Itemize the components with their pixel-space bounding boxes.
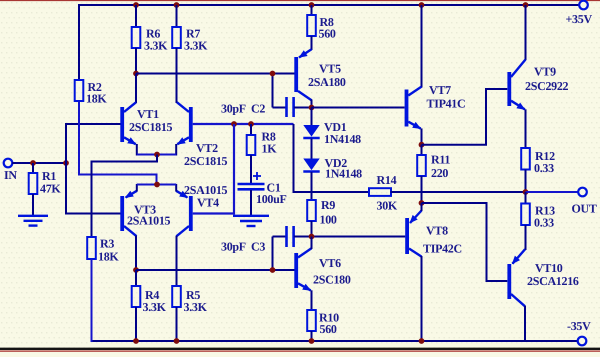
wire R5 bottom xyxy=(176,307,178,342)
svg-text:30pF: 30pF xyxy=(221,102,246,116)
svg-text:1N4148: 1N4148 xyxy=(324,132,361,146)
wire VT6 collector stub xyxy=(311,237,313,250)
resistor R13 xyxy=(521,204,555,230)
wire IN to junction xyxy=(12,162,66,164)
transistor VT10 xyxy=(507,249,579,306)
output terminal OUT xyxy=(572,188,597,216)
wire VT7 base xyxy=(312,107,405,109)
svg-text:R11: R11 xyxy=(431,153,450,167)
transistor VT9 xyxy=(507,60,568,110)
wire R9 bottom xyxy=(311,221,313,238)
transistor VT7 xyxy=(405,83,466,129)
svg-text:VT9: VT9 xyxy=(534,65,556,79)
wire R4 top stub xyxy=(135,270,137,287)
node rail R7 xyxy=(174,2,180,8)
wire R2 to tail2 xyxy=(79,101,157,185)
node R8 feedback xyxy=(248,121,254,127)
wire OUT xyxy=(526,191,579,193)
node rail VT7 xyxy=(419,2,425,8)
transistor VT5 xyxy=(294,49,346,100)
node rail R8 xyxy=(309,2,315,8)
wire VT2-VT4 base tie xyxy=(193,124,234,214)
wire feedback right xyxy=(391,191,527,193)
svg-text:IN: IN xyxy=(4,168,17,182)
svg-text:0.33: 0.33 xyxy=(534,161,554,175)
wire input vertical xyxy=(65,123,67,215)
wire driver link bottom xyxy=(422,203,508,281)
node R5 rail xyxy=(174,338,180,344)
wire VT7 emitter stub xyxy=(421,128,423,145)
transistor VT1 xyxy=(120,102,172,144)
svg-text:3.3K: 3.3K xyxy=(144,39,168,53)
wire driver link top xyxy=(422,89,508,145)
wire C1 bottom stub xyxy=(250,190,252,216)
wire VT6 emitter stub xyxy=(311,290,313,311)
svg-text:3.3K: 3.3K xyxy=(143,300,167,314)
ground below C1 xyxy=(233,216,269,226)
svg-text:TIP41C: TIP41C xyxy=(427,97,466,111)
wire R10 bottom stub xyxy=(311,331,313,342)
wire R2 top xyxy=(78,4,80,81)
resistor R10 xyxy=(307,310,339,336)
capacitor C1 xyxy=(238,172,287,206)
wire R13 top stub xyxy=(525,192,527,204)
wire R12 bottom xyxy=(525,170,527,194)
node input junction R1 xyxy=(30,160,36,166)
wire VT4 collector vertical xyxy=(176,236,178,287)
resistor R2 xyxy=(75,80,108,106)
svg-text:VT6: VT6 xyxy=(319,256,341,270)
capacitor C2 xyxy=(221,97,294,117)
svg-text:3.3K: 3.3K xyxy=(184,300,208,314)
svg-text:C2: C2 xyxy=(251,102,265,116)
wire VT10 collector xyxy=(524,306,526,342)
resistor R1 xyxy=(29,169,62,196)
transistor VT4 xyxy=(176,183,228,236)
wire R11 bottom stub xyxy=(421,176,423,204)
node R4 rail xyxy=(133,338,139,344)
wire C3 left lead xyxy=(273,236,287,238)
power terminal +35V xyxy=(566,1,593,26)
resistor R7 xyxy=(172,27,208,53)
node tail1 xyxy=(154,152,160,158)
wire R8-560 top stub xyxy=(311,5,313,16)
svg-text:18K: 18K xyxy=(98,250,119,264)
svg-text:18K: 18K xyxy=(86,92,107,106)
wire VT9 emitter to R12 xyxy=(525,109,527,149)
wire VD1 top stub xyxy=(311,108,313,127)
node rail R6 xyxy=(133,2,139,8)
resistor R3 xyxy=(87,237,119,264)
wire VT3-VT4 tail xyxy=(137,184,176,186)
transistor VT3 xyxy=(120,191,170,237)
svg-text:+35V: +35V xyxy=(566,12,593,26)
svg-text:30pF: 30pF xyxy=(221,240,246,254)
node OUT xyxy=(523,189,529,195)
wire VT1 collector vertical xyxy=(135,74,137,104)
resistor R11 xyxy=(417,153,450,181)
svg-text:100uF: 100uF xyxy=(256,192,287,206)
node VT6 base junction xyxy=(270,267,276,273)
svg-text:560: 560 xyxy=(320,322,337,336)
svg-text:R9: R9 xyxy=(321,198,335,212)
svg-text:100: 100 xyxy=(320,213,337,227)
svg-text:R14: R14 xyxy=(377,173,397,187)
svg-text:TIP42C: TIP42C xyxy=(423,242,462,256)
power terminal -35V xyxy=(567,319,591,345)
wire R8-560 to VT5 emitter xyxy=(311,36,313,50)
wire R13 to VT10 xyxy=(525,225,527,250)
node VT7 emitter xyxy=(419,142,425,148)
svg-text:47K: 47K xyxy=(40,182,61,196)
svg-text:VT4: VT4 xyxy=(197,196,219,210)
node VT8 emitter xyxy=(419,200,425,206)
wire R4 bottom xyxy=(135,307,137,342)
node tail2 xyxy=(154,182,160,188)
svg-text:220: 220 xyxy=(431,166,448,180)
node VT5 base junction xyxy=(270,71,276,77)
node VT6 collector xyxy=(309,234,315,240)
wire VD1 to VD2 xyxy=(311,139,313,160)
resistor R8 xyxy=(247,130,278,156)
wire VT8 base xyxy=(312,236,406,238)
resistor R12 xyxy=(521,148,555,175)
svg-text:VT7: VT7 xyxy=(429,83,451,97)
wire tail1 to R3 xyxy=(92,155,158,239)
wire +35V top rail xyxy=(79,4,579,6)
wire VT1 base xyxy=(66,123,121,125)
node VT5 collector xyxy=(309,105,315,111)
wire R6 bottom xyxy=(135,48,137,75)
wire VT3 base xyxy=(66,213,121,215)
node IN vertical junction xyxy=(63,160,69,166)
svg-text:2SC1815: 2SC1815 xyxy=(184,154,228,168)
svg-text:OUT: OUT xyxy=(572,202,597,216)
wire R3 bottom xyxy=(91,259,93,342)
wire VT1 emitter stub xyxy=(136,144,138,156)
input terminal IN xyxy=(4,159,18,182)
svg-text:2SCA1216: 2SCA1216 xyxy=(527,274,579,288)
wire R6 top stub xyxy=(135,5,137,28)
wire VT8 collector xyxy=(421,256,423,342)
wire R8 top stub xyxy=(250,124,252,136)
svg-text:2SA180: 2SA180 xyxy=(308,75,346,89)
wire VT3 emitter stub xyxy=(136,184,138,191)
resistor R5 xyxy=(172,286,207,314)
resistor R9 xyxy=(307,198,337,227)
node rail VT9 xyxy=(523,2,529,8)
wire VT9 collector vertical xyxy=(525,5,527,60)
svg-text:30K: 30K xyxy=(377,199,398,213)
svg-text:R3: R3 xyxy=(100,237,114,251)
wire VT3 collector vertical xyxy=(135,236,137,271)
wire C2 left lead xyxy=(273,107,287,109)
node R10 rail xyxy=(309,338,315,344)
wire VT2 base run xyxy=(193,123,294,125)
svg-text:0.33: 0.33 xyxy=(534,216,554,230)
svg-text:VT2: VT2 xyxy=(196,141,218,155)
wire VT5 collector stub xyxy=(311,100,313,109)
wire C3 branch vertical xyxy=(272,237,274,272)
wire VT6 base run xyxy=(136,269,295,271)
svg-text:VT10: VT10 xyxy=(535,261,563,275)
capacitor C3 xyxy=(221,226,294,254)
wire VD2 to R9 xyxy=(311,172,313,201)
transistor VT2 xyxy=(177,102,228,168)
svg-text:2SC180: 2SC180 xyxy=(313,273,351,287)
svg-text:-35V: -35V xyxy=(567,319,591,333)
wire R8 to C1 xyxy=(250,155,252,184)
transistor VT6 xyxy=(294,248,351,290)
wire C2 branch vertical xyxy=(272,74,274,108)
wire R7 to VT2 collector xyxy=(176,48,178,103)
transistor VT8 xyxy=(405,211,462,257)
svg-text:VT1: VT1 xyxy=(137,107,159,121)
svg-text:1K: 1K xyxy=(262,142,278,156)
ground below R1 xyxy=(18,216,48,226)
svg-text:VT8: VT8 xyxy=(426,224,448,238)
wire R7 top stub xyxy=(176,5,178,28)
resistor R8 (560) xyxy=(307,15,336,41)
svg-text:560: 560 xyxy=(319,27,336,41)
wire VT4 emitter stub xyxy=(175,184,177,191)
wire -35V bottom rail xyxy=(92,340,579,342)
wire R11 top stub xyxy=(421,145,423,156)
wire C3 right lead xyxy=(294,236,312,238)
svg-text:C3: C3 xyxy=(251,240,265,254)
resistor R6 xyxy=(132,27,168,53)
node VT3 collector junction xyxy=(133,267,139,273)
node VT4 base tie xyxy=(231,121,237,127)
wire C2 right lead xyxy=(294,107,312,109)
wire VT7 collector vertical xyxy=(421,5,423,88)
wire VT2 emitter stub xyxy=(175,144,177,156)
node VT1 collector junction xyxy=(133,71,139,77)
node VT8 collector rail xyxy=(419,338,425,344)
wire R1 top stub xyxy=(32,163,34,174)
wire VT8 emitter stub xyxy=(421,203,423,211)
svg-text:2SA1015: 2SA1015 xyxy=(127,214,171,228)
wire feedback left xyxy=(294,191,370,193)
svg-text:3.3K: 3.3K xyxy=(184,39,208,53)
resistor R4 xyxy=(132,286,167,314)
wire R1 bottom stub xyxy=(32,194,34,216)
wire VT5 base run xyxy=(136,73,295,75)
svg-text:2SC1815: 2SC1815 xyxy=(129,120,173,134)
diode VD2 xyxy=(303,156,362,181)
diode VD1 xyxy=(303,120,361,146)
wire VT1-VT2 tail xyxy=(137,154,176,156)
resistor R14 xyxy=(369,173,398,213)
wire feedback corner xyxy=(293,124,295,193)
svg-text:2SC2922: 2SC2922 xyxy=(525,79,569,93)
svg-text:VT5: VT5 xyxy=(319,62,341,76)
svg-text:1N4148: 1N4148 xyxy=(325,167,362,181)
